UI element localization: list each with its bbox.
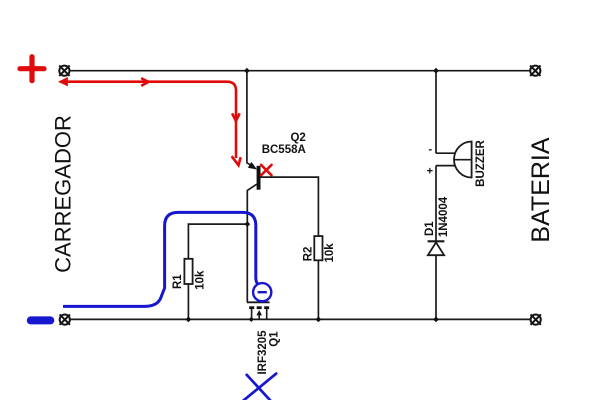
svg-text:BC558A: BC558A	[262, 144, 306, 156]
wire top rail	[69, 70, 530, 72]
wire body arrow to bottom rail	[258, 315, 260, 319]
diode D1 cathode bar	[428, 240, 445, 242]
svg-text:10k: 10k	[324, 243, 336, 263]
terminal pad bottom-left	[60, 314, 70, 324]
wire drain segment to bottom rail	[251, 309, 253, 319]
terminal pad bottom-right	[531, 314, 541, 324]
svg-text:BATERIA: BATERIA	[527, 137, 555, 242]
svg-text:R1: R1	[172, 274, 184, 289]
node junction top at Q2 branch	[244, 68, 250, 74]
resistor R1 body	[184, 259, 192, 284]
svg-text:IRF3205: IRF3205	[257, 330, 269, 375]
wire buzzer top stub	[436, 152, 455, 154]
svg-text:CARREGADOR: CARREGADOR	[51, 115, 76, 273]
MOSFET Q1 channel bar (body segment)	[257, 306, 262, 309]
wire emitter branch from top rail	[247, 71, 255, 168]
wire R2 to bottom rail	[317, 260, 319, 319]
svg-text:Q1: Q1	[269, 331, 281, 347]
blue probe wire from charger negative	[63, 212, 259, 306]
wire D1 to bottom rail	[435, 255, 437, 319]
node junction D1 / bottom rail	[433, 317, 439, 323]
red X mark at Q2	[261, 165, 272, 176]
wire R1 top to collector node	[188, 224, 247, 259]
plus symbol (red)	[20, 57, 44, 81]
buzzer BZ dome	[454, 142, 472, 178]
svg-text:1N4004: 1N4004	[438, 196, 450, 237]
wire bottom rail	[70, 318, 531, 320]
MOSFET Q1 channel bar (source segment)	[264, 306, 269, 309]
resistor R2 body	[314, 236, 322, 260]
transistor Q2 collector wire	[247, 184, 256, 302]
MOSFET Q1 channel bar (drain segment)	[249, 306, 254, 309]
blue probe circle (minus)	[253, 283, 271, 301]
node junction top at battery branch	[433, 68, 439, 74]
terminal pad top-right	[530, 66, 540, 76]
MOSFET Q1 body arrow	[256, 310, 262, 315]
svg-text:R2: R2	[302, 247, 314, 262]
red current-flow wire from charger positive	[66, 78, 241, 165]
svg-text:-: -	[428, 144, 432, 156]
svg-text:BUZZER: BUZZER	[475, 139, 487, 186]
node junction R2 / bottom rail	[316, 317, 322, 323]
svg-text:Q2: Q2	[290, 132, 305, 144]
blue battery-negative pill	[27, 316, 55, 324]
node junction R1 / bottom rail	[186, 317, 192, 323]
node junction collector / R1 / gate	[244, 221, 250, 227]
wire buzzer bottom stub	[436, 165, 455, 167]
MOSFET Q1 gate plate	[247, 301, 270, 303]
red arrow tail head (left-pointing)	[60, 78, 68, 85]
transistor Q2 emitter arrow (PNP)	[248, 162, 257, 170]
transistor Q2 base bar	[257, 166, 261, 190]
svg-text:D1: D1	[424, 221, 436, 236]
wire battery branch from top rail	[435, 71, 437, 154]
blue X mark at Q1	[239, 374, 276, 400]
wire source segment to bottom rail	[266, 309, 268, 319]
svg-text:10k: 10k	[194, 270, 206, 290]
svg-text:+: +	[427, 165, 433, 177]
wire R1 to bottom rail	[187, 283, 189, 319]
wire buzzer to diode D1	[435, 166, 437, 242]
diode D1 triangle	[428, 242, 444, 255]
buzzer BZ chord	[454, 159, 472, 161]
terminal pad top-left	[59, 66, 69, 76]
node junction Q1 / bottom rail	[249, 317, 254, 322]
wire Q2 base to R2	[261, 177, 319, 236]
